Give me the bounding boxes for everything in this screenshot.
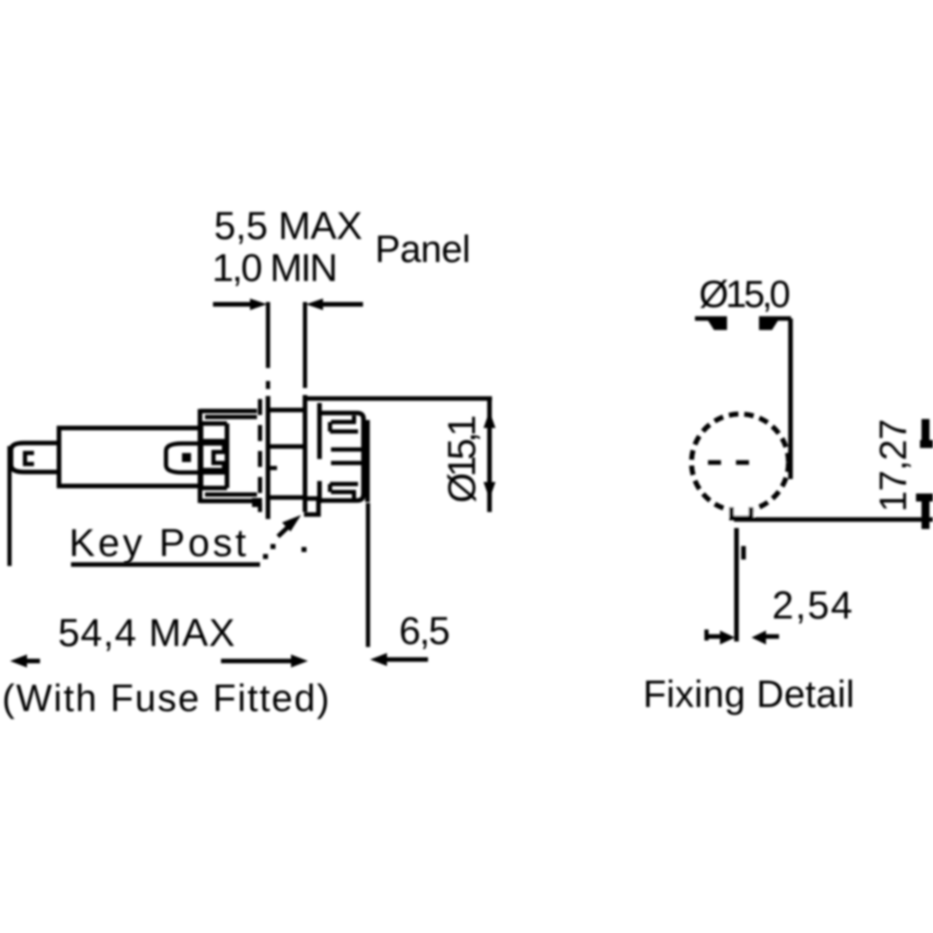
panel left ext dot (266, 381, 270, 389)
6,5 dim arrow (370, 653, 387, 666)
panel right face (303, 395, 308, 512)
bushing bottom edge (269, 495, 303, 500)
bezel back face upper (317, 403, 322, 459)
key post underline (71, 562, 260, 567)
2,54 left end tick (704, 630, 708, 641)
dia 15,1 extension line (304, 396, 492, 401)
17,27 bottom corner mark (916, 497, 933, 529)
collar bottom inner (205, 492, 257, 496)
dia 15,0 left arrow (707, 319, 727, 330)
bushing mid line (269, 444, 303, 449)
panel dim arrow left (250, 299, 267, 311)
collar top inner (205, 415, 257, 419)
svg-text:Key Post: Key Post (69, 522, 249, 565)
svg-text:5,5 MAX: 5,5 MAX (214, 205, 362, 248)
svg-text:Ø15,1: Ø15,1 (441, 416, 484, 503)
key post right part (304, 499, 319, 515)
panel thickness dim line left (213, 302, 253, 307)
leader dot 2 (271, 544, 276, 549)
body rectangle (59, 428, 201, 486)
panel hole circle dashed (692, 414, 789, 511)
tag slot notch (25, 453, 34, 464)
centre mark dashes (708, 460, 721, 465)
keyway notch (732, 507, 752, 518)
slot side tick (741, 546, 746, 560)
svg-text:(With Fuse Fitted): (With Fuse Fitted) (2, 678, 331, 720)
54,4 dim left tail (26, 659, 40, 664)
dia 15,0 dim right line (759, 316, 791, 321)
extension line 54,4 left (7, 446, 11, 566)
dia 15,0 dim left line (695, 316, 727, 321)
svg-text:1,0 MIN: 1,0 MIN (212, 247, 336, 290)
2,54 dim right line (766, 634, 779, 639)
svg-text:2,54: 2,54 (772, 585, 854, 628)
6,5 dim line (386, 657, 428, 662)
collar left edge (198, 409, 203, 503)
dia 15,1 arrow down (484, 482, 496, 499)
bezel bottom edge (321, 494, 364, 501)
dia 15,1 arrow up (484, 411, 496, 428)
svg-text:Panel: Panel (375, 229, 470, 271)
cap right edge (225, 424, 230, 489)
knurl bottom groove (330, 484, 358, 499)
centre nub (268, 466, 277, 470)
bezel back face lower (317, 481, 322, 503)
panel left face (266, 396, 271, 519)
svg-text:17,27: 17,27 (873, 419, 915, 512)
17,27 top corner mark (920, 419, 933, 444)
2,54 left arrow (720, 631, 735, 645)
solder tag terminal (11, 443, 60, 472)
flat extension line right (734, 517, 933, 522)
dia 15,0 right arrow (759, 319, 779, 330)
54,4 dim right arrow (291, 655, 308, 668)
fuse clip (166, 444, 224, 473)
54,4 dim left arrow (10, 655, 27, 668)
54,4 dim line (221, 659, 292, 664)
dia 15,0 extension down (788, 319, 793, 480)
cap bottom lines (203, 468, 225, 472)
knurl mid band (331, 450, 362, 464)
hidden edge dashed (258, 399, 262, 512)
slot centre line below (734, 528, 739, 642)
svg-text:54,4 MAX: 54,4 MAX (58, 612, 236, 655)
svg-text:Fixing Detail: Fixing Detail (643, 674, 855, 716)
panel left face extension (266, 302, 270, 368)
collar bottom (200, 499, 257, 504)
bushing top edge (269, 408, 303, 413)
2,54 dim left line (706, 634, 722, 639)
svg-text:6,5: 6,5 (399, 610, 450, 653)
svg-text:Ø15,0: Ø15,0 (699, 274, 789, 316)
cap top lines (201, 421, 227, 426)
bezel front outer (361, 418, 366, 495)
panel right face extension (303, 302, 307, 388)
dia 15,1 dim line (487, 399, 492, 513)
key post left part (252, 498, 262, 507)
bezel front extension down (366, 503, 370, 647)
collar top (200, 409, 257, 414)
clip rivet (182, 453, 191, 462)
panel dim arrow right (306, 299, 323, 311)
2,54 right arrow (752, 631, 767, 645)
panel thickness dim line right (321, 302, 363, 307)
knurl top groove (330, 416, 358, 432)
bezel front inner (365, 420, 370, 502)
keyway notch erase (728, 503, 754, 517)
leader arrow tail (278, 527, 288, 537)
bezel top edge (321, 413, 364, 419)
leader arrowhead (282, 515, 301, 532)
leader dot 3 (302, 547, 307, 552)
leader dot 1 (263, 554, 268, 559)
